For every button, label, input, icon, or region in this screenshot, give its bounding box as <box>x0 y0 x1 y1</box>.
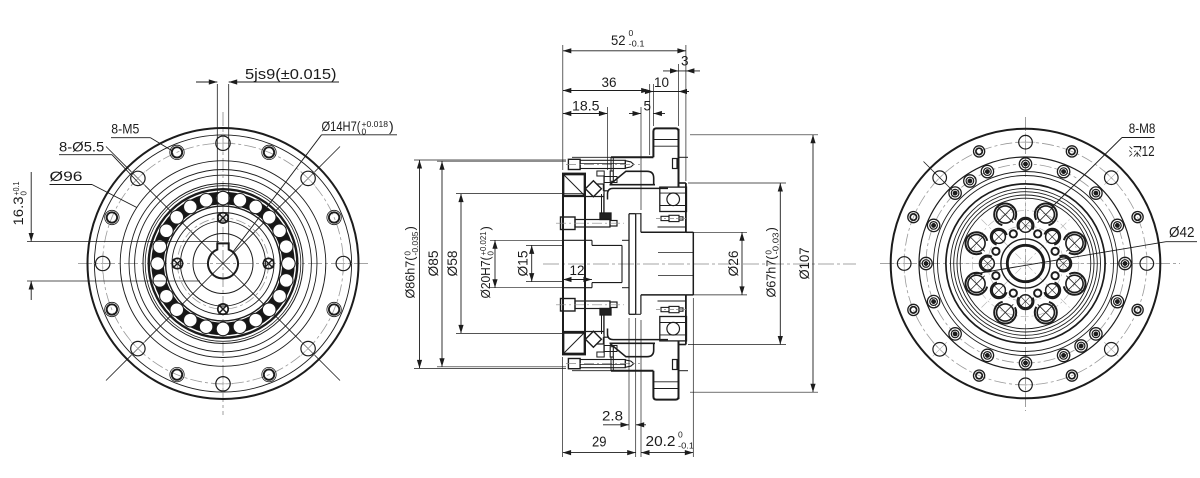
keyway width dimension 5js9 <box>196 66 339 243</box>
spigot boss dia67 <box>679 183 686 345</box>
diagonal centerline NW-SE <box>106 147 340 381</box>
flexspline bolt <box>556 299 624 312</box>
small hole at 247.5 deg <box>1010 290 1017 297</box>
svg-text:-0.1: -0.1 <box>629 39 645 49</box>
svg-text:0: 0 <box>629 28 634 38</box>
dim 5 <box>629 99 665 211</box>
housing outline <box>611 157 688 370</box>
dim 52 top <box>563 28 686 170</box>
label 8-M8 depth 12 <box>1051 120 1156 208</box>
output flange section <box>563 174 585 355</box>
svg-text:8-M8: 8-M8 <box>1129 120 1156 136</box>
svg-text:8-M5: 8-M5 <box>111 121 139 137</box>
counterbore hole at 112 deg <box>974 146 985 157</box>
label 8-dia5.5 <box>59 139 141 186</box>
bearing ball 24 <box>279 274 293 288</box>
diagonal centerline SW-NE <box>106 147 340 381</box>
label dia96 <box>50 168 137 208</box>
bearing ball 8 <box>199 194 213 208</box>
cross roller (diamond) top <box>585 181 601 197</box>
tapped hole M8 at 157.5 deg <box>966 232 988 254</box>
tapped hole M8 at 67.5 deg <box>1035 204 1057 226</box>
svg-text:Ø85: Ø85 <box>426 251 441 277</box>
right view: input flange rear view <box>880 117 1180 411</box>
bore dia20H7 <box>563 239 592 241</box>
counterbore hole at 248 deg <box>974 370 985 381</box>
flexspline wall top <box>601 194 603 213</box>
counterbore hole at 338 deg <box>1132 304 1143 315</box>
input bearing <box>660 187 687 211</box>
clearance hole 5.5 at 315 deg <box>301 341 315 355</box>
dim 3 <box>663 45 700 181</box>
svg-text:0: 0 <box>20 191 29 196</box>
section view centerline <box>543 263 856 265</box>
gear mesh top <box>600 213 611 220</box>
tapped hole M8 at 337.5 deg <box>1064 273 1086 295</box>
flexspline wall bottom <box>601 315 603 334</box>
hole at 180 deg <box>980 255 996 271</box>
centerline vertical <box>222 112 224 415</box>
dim 10 <box>642 64 689 126</box>
hole at 225 deg <box>991 282 1007 298</box>
dim dia107 <box>690 135 818 392</box>
set pin bottom <box>673 360 678 370</box>
center hole dia42 <box>1001 239 1050 288</box>
roller race line bottom <box>563 331 604 333</box>
svg-text:36: 36 <box>602 75 617 90</box>
svg-text:Ø58: Ø58 <box>445 251 460 277</box>
small hole at 22.5 deg <box>1052 248 1059 255</box>
housing inner wall bottom <box>610 357 612 371</box>
housing screw at 202.5 deg <box>927 295 939 307</box>
bearing ball 19 <box>216 322 230 336</box>
housing screw at 0.0 deg <box>1119 257 1131 269</box>
screw pitch circle <box>926 164 1125 363</box>
counterbore hole at 22 deg <box>1132 212 1143 223</box>
clearance hole 5.5 at 180 deg <box>93 254 113 274</box>
tapped hole M8 at 22.5 deg <box>1064 232 1086 254</box>
bearing ball 23 <box>273 289 287 303</box>
housing screw at 304 deg <box>1075 340 1087 352</box>
wave generator cam bottom <box>597 329 668 357</box>
flexspline clamp step bottom <box>597 352 604 357</box>
bearing ball 4 <box>262 211 276 225</box>
bolt hole at 270 deg <box>1016 375 1036 395</box>
clearance hole 5.5 at 270 deg <box>213 374 233 394</box>
input flange plate <box>653 128 678 399</box>
svg-text:Ø107: Ø107 <box>797 248 812 280</box>
hole at 90 deg <box>1017 218 1033 234</box>
cross roller (square) bottom <box>564 333 585 354</box>
bolt hole at 0 deg <box>1137 254 1157 274</box>
retaining screw <box>656 306 687 312</box>
svg-text:16.3: 16.3 <box>11 197 26 226</box>
label dia14H7 <box>233 118 397 252</box>
bearing ball 16 <box>170 303 184 317</box>
flange screw at 270 deg <box>218 304 228 314</box>
housing screw at 67.5 deg <box>1057 165 1069 177</box>
tapped hole M5 at 248 deg <box>170 367 184 381</box>
housing screw at 124 deg <box>964 175 976 187</box>
dim 36 <box>563 75 650 155</box>
housing screw at 315.0 deg <box>1090 328 1102 340</box>
circle dia 96 <box>120 161 326 367</box>
dim 2.8 <box>602 318 646 430</box>
small hole at 112.5 deg <box>1010 230 1017 237</box>
dim dia86h7 <box>403 160 567 368</box>
housing screw at 90.0 deg <box>1019 158 1031 170</box>
bearing ball 7 <box>216 191 230 205</box>
housing screw at 247.5 deg <box>981 349 993 361</box>
tapped hole M5 at 292 deg <box>262 367 276 381</box>
flexspline clamp step top <box>597 171 604 176</box>
clearance hole 5.5 at 90 deg <box>213 133 233 153</box>
flange screw at 0 deg <box>263 258 273 268</box>
bearing inner race circles <box>166 206 281 321</box>
bearing ball 2 <box>279 240 293 254</box>
bearing cage band <box>158 198 289 329</box>
svg-text:Ø20H7(: Ø20H7( <box>478 256 493 299</box>
centerline horizontal <box>78 263 368 265</box>
small hole at 67.5 deg <box>1034 230 1041 237</box>
circle <box>180 221 265 306</box>
bolt pitch circle <box>103 143 344 384</box>
bearing outer rim circles <box>143 184 303 344</box>
svg-text:Ø42: Ø42 <box>1169 225 1195 241</box>
circle dia 86 <box>129 170 317 358</box>
bearing ball 17 <box>184 313 198 327</box>
bearing ball 20 <box>233 320 247 334</box>
dim 29 <box>563 318 636 457</box>
svg-text:8-Ø5.5: 8-Ø5.5 <box>59 139 105 155</box>
svg-text:-0.035: -0.035 <box>411 231 420 256</box>
tapped hole M5 at 158 deg <box>105 210 119 224</box>
center hole dia14 with keyway <box>208 243 238 278</box>
bearing ball 9 <box>184 200 198 214</box>
cross roller (square) top <box>564 175 585 196</box>
hole at 0 deg <box>1055 255 1071 271</box>
bearing ball 3 <box>273 224 287 238</box>
housing screw at 225.0 deg <box>949 328 961 340</box>
bearing ball 10 <box>170 211 184 225</box>
svg-text:): ) <box>763 227 778 231</box>
clearance hole 5.5 at 0 deg <box>333 254 353 274</box>
tapped hole M8 at 292.5 deg <box>1035 302 1057 324</box>
flange screw at 90 deg <box>218 213 228 223</box>
hole at 135 deg <box>991 229 1007 245</box>
svg-text:-0.03: -0.03 <box>772 232 781 255</box>
counterbore hole at 292 deg <box>1066 370 1077 381</box>
tapped hole M8 at 247.5 deg <box>994 302 1016 324</box>
flexspline diaphragm <box>622 214 636 315</box>
label 8-M5 <box>111 121 173 152</box>
svg-text:3: 3 <box>681 54 689 69</box>
svg-text:29: 29 <box>592 435 607 451</box>
housing screw at 292.5 deg <box>1057 349 1069 361</box>
dim dia15 <box>516 245 563 281</box>
hole at 45 deg <box>1044 229 1060 245</box>
clamp bolt <box>566 157 640 169</box>
svg-text:5js9(±0.015): 5js9(±0.015) <box>245 66 337 83</box>
housing screw at 112.5 deg <box>981 165 993 177</box>
pattern centerline dashes <box>964 202 1088 326</box>
housing screw at 337.5 deg <box>1111 295 1123 307</box>
clearance hole 5.5 at 135 deg <box>131 171 145 185</box>
tapped hole M8 at 112.5 deg <box>994 204 1016 226</box>
tapped hole M5 at 112 deg <box>170 145 184 159</box>
flange outer circle <box>891 129 1161 399</box>
svg-text:20.2: 20.2 <box>646 434 676 450</box>
flexspline bolt <box>556 217 624 230</box>
bolt hole at 225 deg <box>933 342 947 356</box>
cross roller (diamond) bottom <box>585 331 601 347</box>
dim dia26 <box>693 232 747 295</box>
bolt pitch circle <box>904 142 1147 385</box>
dim 12 bore depth <box>563 263 592 282</box>
screw pitch circle <box>177 218 268 309</box>
inner circles <box>934 172 1118 356</box>
svg-text:0: 0 <box>678 430 683 440</box>
retaining screw <box>656 215 687 221</box>
left view: output flange front view <box>78 112 368 415</box>
bolt hole at 135 deg <box>933 171 947 185</box>
bearing ball 18 <box>199 320 213 334</box>
bearing outer race thick circle <box>149 189 298 338</box>
tapped hole M5 at 22 deg <box>327 210 341 224</box>
counterbore hole at 68 deg <box>1066 146 1077 157</box>
dim dia20H7 <box>478 226 563 298</box>
bolt hole at 45 deg <box>1104 171 1118 185</box>
dim dia85 <box>426 161 566 367</box>
clamp bolt <box>566 359 640 371</box>
small hole at 157.5 deg <box>992 248 999 255</box>
small hole at 292.5 deg <box>1034 290 1041 297</box>
svg-text:Ø86h7(: Ø86h7( <box>403 256 418 299</box>
svg-text:18.5: 18.5 <box>572 99 600 114</box>
bolt hole at 315 deg <box>1104 342 1118 356</box>
dim 18.5 <box>563 99 608 171</box>
svg-text:0: 0 <box>486 251 495 256</box>
tapped hole M5 at 68 deg <box>262 145 276 159</box>
flange inner edge circle <box>94 135 351 392</box>
dim dia58 <box>445 194 585 334</box>
svg-text:): ) <box>389 118 394 134</box>
bearing ball 15 <box>160 289 174 303</box>
svg-text:Ø67h7(: Ø67h7( <box>763 255 778 298</box>
centerline vertical <box>1025 117 1027 411</box>
housing inner wall top <box>610 157 612 171</box>
wave generator cam top <box>597 171 668 199</box>
input bearing <box>660 317 687 341</box>
svg-text:): ) <box>478 226 493 230</box>
housing screw at 45.0 deg <box>1090 187 1102 199</box>
flange outer circle <box>88 128 359 399</box>
svg-text:52: 52 <box>611 33 626 48</box>
diagonal centerline mark <box>924 162 953 191</box>
tapped hole M8 at 202.5 deg <box>966 273 988 295</box>
hole at 315 deg <box>1044 282 1060 298</box>
bearing ball 22 <box>262 303 276 317</box>
housing screw at 22.5 deg <box>1111 219 1123 231</box>
counterbore hole at 158 deg <box>908 212 919 223</box>
dim 20.2 <box>641 298 694 457</box>
svg-text:Ø15: Ø15 <box>516 251 531 277</box>
circle <box>135 175 312 352</box>
svg-text:12: 12 <box>570 263 585 278</box>
svg-text:-0.1: -0.1 <box>678 441 694 451</box>
bolt hole at 90 deg <box>1016 132 1036 152</box>
set pin top <box>673 159 678 169</box>
counterbore hole at 202 deg <box>908 304 919 315</box>
svg-text:2.8: 2.8 <box>602 408 623 424</box>
bearing ball 13 <box>151 257 165 271</box>
svg-text:Ø26: Ø26 <box>726 251 741 277</box>
housing circle <box>919 157 1132 370</box>
small hole at 337.5 deg <box>1052 272 1059 279</box>
input shaft end dia26 <box>636 213 694 314</box>
svg-text:12: 12 <box>1142 144 1155 160</box>
dim dia67h7 <box>688 183 786 345</box>
svg-text:Ø96: Ø96 <box>50 168 83 184</box>
label dia42 <box>974 225 1197 274</box>
centerline horizontal <box>880 263 1180 265</box>
bearing ball 1 <box>282 257 296 271</box>
gear mesh bottom <box>600 309 611 316</box>
housing bore line <box>658 226 687 228</box>
bearing ball 5 <box>249 200 263 214</box>
bearing ball 21 <box>249 313 263 327</box>
housing screw at 270.0 deg <box>1019 357 1031 369</box>
bolt hole at 180 deg <box>894 254 914 274</box>
clearance hole 5.5 at 225 deg <box>131 341 145 355</box>
bearing ball 12 <box>153 240 167 254</box>
tapped hole M5 at 202 deg <box>105 302 119 316</box>
bore dia15 <box>592 244 622 246</box>
housing screw at 157.5 deg <box>927 219 939 231</box>
hub circle <box>193 234 253 294</box>
svg-text:10: 10 <box>654 75 669 90</box>
tapped hole M5 at 338 deg <box>327 302 341 316</box>
hole at 270 deg <box>1017 293 1033 309</box>
svg-text:): ) <box>403 226 418 230</box>
svg-text:5: 5 <box>644 99 652 114</box>
bearing ball 14 <box>153 274 167 288</box>
flange screw at 180 deg <box>172 258 182 268</box>
svg-text:Ø14H7(: Ø14H7( <box>322 118 361 134</box>
section view body <box>556 128 693 399</box>
keyway depth dimension 16.3 <box>11 172 219 300</box>
housing screw at 180.0 deg <box>920 257 932 269</box>
bearing ball 11 <box>160 224 174 238</box>
bearing ball 6 <box>233 194 247 208</box>
small hole at 202.5 deg <box>992 272 999 279</box>
clearance hole 5.5 at 45 deg <box>301 171 315 185</box>
housing screw at 135.0 deg <box>949 187 961 199</box>
ring circles <box>946 184 1105 343</box>
roller race line top <box>563 196 604 198</box>
